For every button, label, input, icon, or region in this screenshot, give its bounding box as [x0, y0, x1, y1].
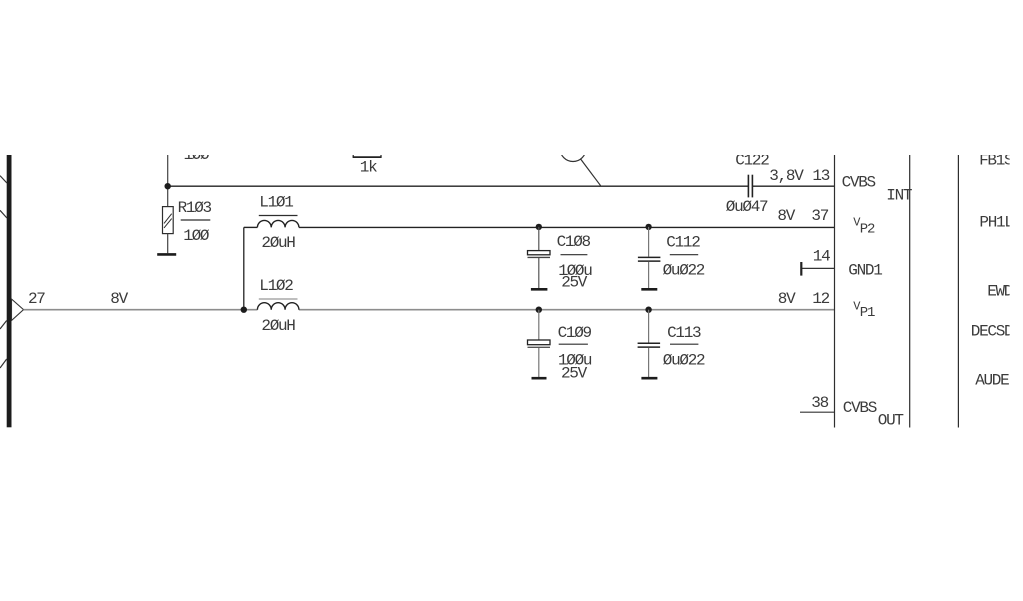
svg-text:P1: P1	[860, 305, 875, 321]
ground (C108)	[531, 288, 548, 291]
wire vertical riser joining L101 branch to 8V net	[243, 227, 245, 309]
node pin 27 bus tap diamond	[12, 299, 24, 321]
svg-text:8V: 8V	[110, 290, 128, 308]
wire (bus entry diagonal top 1)	[0, 176, 7, 183]
svg-text:38: 38	[811, 394, 828, 412]
svg-text:P2: P2	[860, 222, 875, 238]
svg-text:AUDE: AUDE	[975, 372, 1009, 390]
ground (C109)	[532, 377, 547, 380]
svg-text:L1Ø2: L1Ø2	[259, 277, 293, 295]
svg-text:C113: C113	[667, 324, 701, 342]
svg-text:1ØØ: 1ØØ	[183, 227, 210, 245]
svg-text:R1Ø3: R1Ø3	[178, 199, 212, 217]
svg-text:C1Ø8: C1Ø8	[557, 233, 591, 251]
node junction dot C108 top	[536, 224, 542, 230]
wire net 8V horizontal (gray), left segment to L102	[24, 309, 258, 311]
probe circle (cropped) with pointer to CVBS wire	[560, 136, 586, 162]
ground (R103)	[157, 253, 176, 256]
wire CVBS line y=186 right segment (C122 to IC pin 13)	[753, 185, 835, 187]
node junction dot at R103 top	[165, 183, 171, 189]
svg-text:14: 14	[813, 248, 830, 266]
capacitor C122 (series in CVBS line)	[747, 175, 749, 198]
svg-text:2ØuH: 2ØuH	[261, 317, 295, 335]
node junction dot L102 / riser	[241, 307, 247, 313]
resistor 1k (cropped at top), bottom of body visible	[353, 156, 382, 158]
svg-text:8V: 8V	[778, 290, 796, 308]
svg-text:INT: INT	[886, 187, 912, 205]
svg-text:C1Ø9: C1Ø9	[558, 324, 592, 342]
node junction dot C109 top	[536, 307, 542, 313]
svg-text:13: 13	[812, 167, 829, 185]
svg-text:OUT: OUT	[878, 412, 904, 430]
crop masks (white)	[0, 0, 1023, 155]
svg-text:8V: 8V	[777, 207, 795, 225]
svg-text:ØuØ22: ØuØ22	[663, 352, 705, 370]
inductor L101	[257, 220, 299, 227]
wire CVBS line y=186 left segment (junction to C122)	[168, 185, 748, 187]
svg-text:1k: 1k	[360, 159, 377, 177]
wire terminator bar at pin 14 stub	[800, 262, 802, 276]
resistor R103	[163, 207, 174, 234]
wire R103 bottom lead	[167, 234, 169, 254]
svg-text:C112: C112	[666, 234, 700, 252]
IC U1 right edge	[909, 150, 911, 428]
svg-text:25V: 25V	[561, 273, 588, 291]
svg-text:3,8V: 3,8V	[769, 167, 804, 185]
capacitor C108 (electrolytic)	[538, 227, 540, 251]
node junction dot C113 top	[645, 307, 651, 313]
capacitor C113	[648, 310, 650, 343]
wire net 8V horizontal (gray), right segment from L102 to IC pin 12	[299, 309, 835, 311]
wire pin 14 stub	[802, 267, 835, 269]
svg-text:12: 12	[812, 290, 829, 308]
IC U2 left edge (second chip)	[957, 150, 959, 428]
wire (bus entry diagonal top 2)	[0, 210, 7, 218]
wire (bus entry diagonal lower 2)	[0, 359, 7, 368]
ground (C112)	[641, 288, 657, 291]
svg-text:GND1: GND1	[848, 262, 882, 280]
svg-text:2ØuH: 2ØuH	[261, 234, 295, 252]
svg-text:L1Ø1: L1Ø1	[259, 194, 293, 212]
svg-text:CVBS: CVBS	[843, 399, 877, 417]
op-amp / IC U1 left edge	[834, 150, 836, 428]
capacitor C109 (electrolytic)	[538, 310, 540, 340]
svg-text:CVBS: CVBS	[842, 174, 876, 192]
node junction dot C112 top	[645, 224, 651, 230]
svg-text:DECSD: DECSD	[971, 323, 1013, 341]
svg-text:25V: 25V	[561, 365, 588, 383]
wire VP2 line y=227 (L101 to IC pin 37)	[244, 226, 258, 228]
bus (thick vertical supply bus at left)	[7, 155, 12, 428]
inductor L102	[257, 303, 299, 310]
svg-text:ØuØ22: ØuØ22	[663, 261, 705, 279]
wire (bus entry diagonal lower 1)	[0, 321, 7, 330]
wire pin 38 stub	[800, 411, 835, 413]
capacitor C112	[648, 227, 650, 257]
svg-text:ØuØ47: ØuØ47	[726, 198, 768, 216]
svg-text:EWD: EWD	[987, 282, 1013, 300]
wire from cropped resistor above down to junction	[167, 150, 169, 207]
svg-text:27: 27	[28, 290, 45, 308]
svg-text:37: 37	[811, 207, 828, 225]
ground (C113)	[641, 377, 657, 380]
